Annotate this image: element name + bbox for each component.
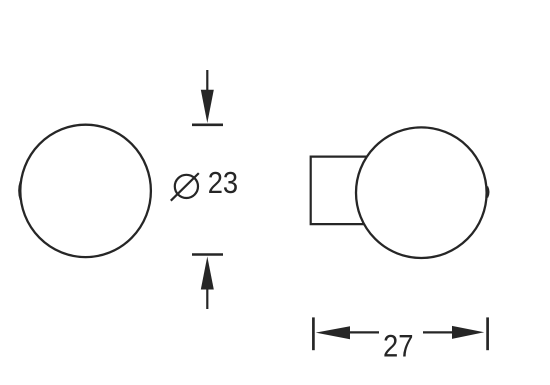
width dimension right tick <box>486 317 489 350</box>
width dimension left tick <box>312 317 315 350</box>
diameter symbol slash <box>171 173 199 201</box>
svg-text:23: 23 <box>208 166 238 200</box>
neck rectangle side view <box>311 157 378 225</box>
top extension tick <box>192 124 223 127</box>
svg-text:27: 27 <box>383 327 414 363</box>
width dimension line right segment <box>423 331 454 333</box>
knob front view circle <box>20 125 151 257</box>
width dimension arrowhead pointing right <box>452 326 484 339</box>
diameter symbol circle <box>175 175 198 198</box>
width dimension line left segment <box>348 331 379 333</box>
width dimension arrowhead pointing left <box>316 326 350 339</box>
edge mark right of ball circle <box>487 187 488 198</box>
bottom dimension leader line <box>206 287 208 309</box>
top dimension leader line <box>206 70 208 95</box>
top dimension arrowhead pointing down <box>201 90 214 123</box>
edge mark left of front circle <box>19 182 21 200</box>
bottom dimension arrowhead pointing up <box>201 257 214 290</box>
knob ball side view circle <box>356 127 487 258</box>
bottom extension tick <box>192 253 223 256</box>
